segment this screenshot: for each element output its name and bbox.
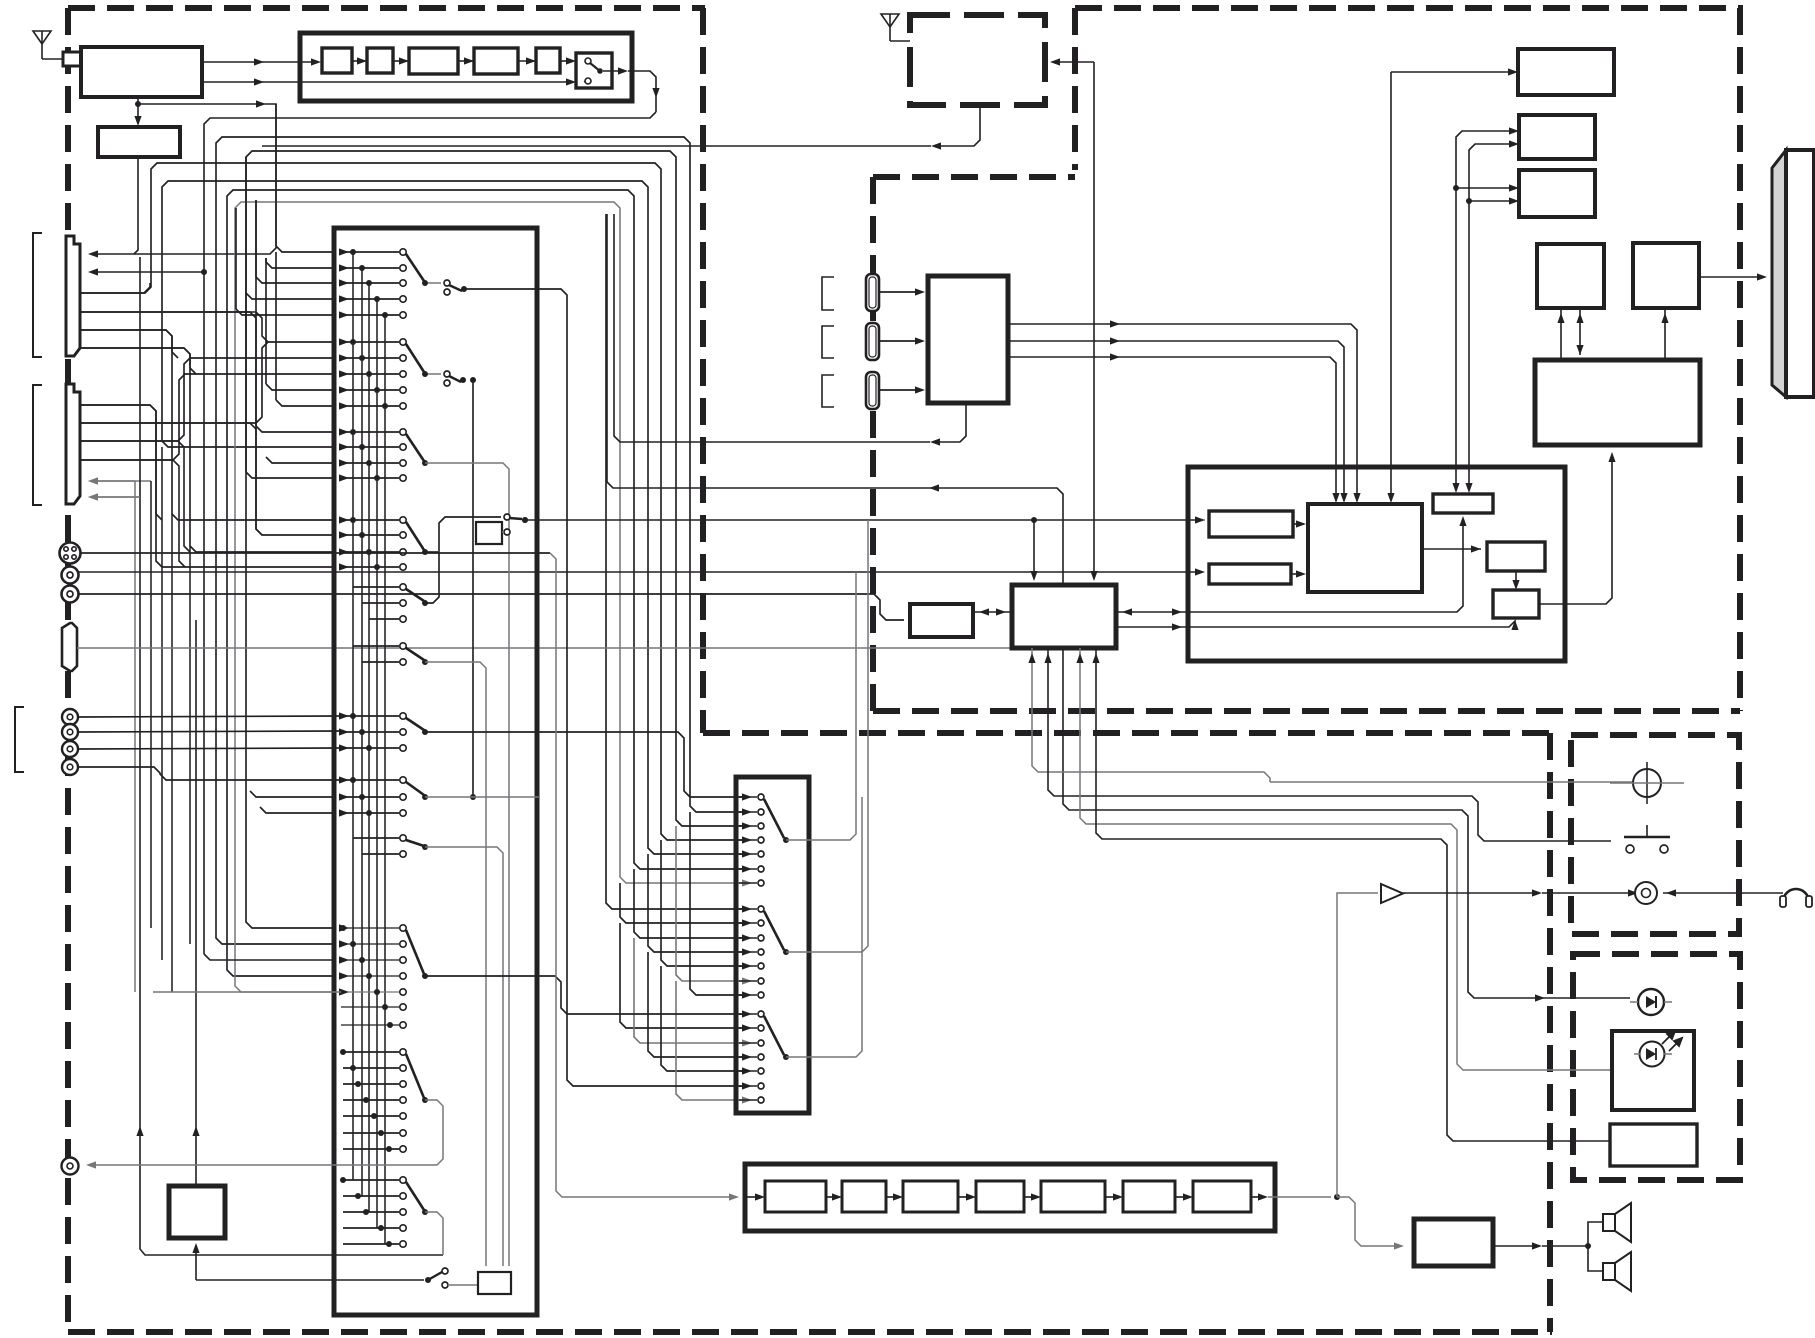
switch lever A bbox=[406, 254, 424, 281]
wire interface-motor bidirectional bbox=[973, 611, 1012, 613]
wire R2 output bbox=[786, 520, 868, 952]
switch lever D2 bbox=[406, 589, 424, 601]
wire A output bbox=[464, 289, 742, 1086]
dashed enclosure: top-right block top edge bbox=[1075, 5, 1743, 11]
headphone icon bbox=[1783, 889, 1809, 902]
switch lever D1 bbox=[406, 522, 424, 550]
wire y442 from head amp bottom bbox=[936, 403, 966, 442]
trunk vertical x266 mid bbox=[265, 262, 267, 384]
trunk vertical x135 gray bbox=[134, 481, 136, 992]
wire I output to rec RCA bbox=[92, 1100, 443, 1165]
switch group B rows bbox=[341, 341, 399, 343]
trunk vertical x162 lower bbox=[161, 447, 163, 960]
wire tuner branch right bbox=[138, 103, 270, 105]
block: tone stage 6 bbox=[1123, 1181, 1175, 1212]
mid trunk stub x634 to R3 row3 bbox=[634, 938, 742, 1043]
cassette head connector 3 bbox=[866, 372, 879, 409]
mid trunk stub x661 to R3 row5 bbox=[661, 966, 742, 1071]
bus P4 conn1-pin3 / y163 / recsel row4 bbox=[81, 163, 742, 840]
connector CN3 bbox=[62, 623, 77, 671]
speaker 2 bbox=[1603, 1263, 1615, 1280]
switch group C rows bbox=[341, 431, 399, 433]
block: chain stage 4 bbox=[474, 48, 518, 74]
IR receiver symbol bbox=[1638, 989, 1664, 1015]
switch group D2 rows bbox=[353, 586, 399, 588]
dot column verticals A-J bbox=[352, 252, 354, 1180]
wire x1469 feed bbox=[1469, 144, 1513, 488]
mid trunk vertical x606 to R2 row1 bbox=[606, 214, 742, 909]
dashed enclosure: top-right block left upper edge bbox=[1072, 8, 1078, 170]
wire CN3 gray line y648 bbox=[77, 647, 1012, 649]
wire antenna to terminal bbox=[42, 58, 63, 60]
wire RCA4 to matrix F row bbox=[78, 767, 341, 780]
switch lever B bbox=[406, 344, 424, 372]
wire FM box bottom return bbox=[937, 105, 980, 146]
bracket head 2 bbox=[822, 326, 834, 358]
connector RCA 1 bbox=[62, 709, 78, 725]
wire y635 inside syscon bbox=[1188, 621, 1515, 627]
trunk vertical x256 mid bbox=[255, 200, 257, 426]
wire B output x473 bbox=[472, 380, 474, 797]
gray row H pass bbox=[153, 991, 341, 993]
cassette head connector 1 bbox=[866, 274, 879, 311]
wire tuner out 1 bbox=[202, 61, 316, 63]
trunk vertical x151 lower bbox=[150, 481, 152, 928]
wire to speaker 1 bbox=[1588, 1222, 1603, 1246]
bus P2 y137 / H row2 / recsel row2 bbox=[216, 137, 742, 944]
block: tone stage 2 bbox=[842, 1181, 886, 1212]
wire y520 into latch1 bbox=[1199, 519, 1205, 521]
small box power block bbox=[478, 1272, 511, 1294]
connector CN1 bbox=[66, 236, 80, 356]
switch group D1 rows bbox=[341, 519, 399, 521]
wire y488 long line bbox=[607, 214, 935, 488]
block: head amplifier bbox=[928, 276, 1008, 403]
wire ANT2 to FM box bbox=[890, 40, 910, 42]
dashed enclosure: cassette block left edge bbox=[870, 177, 876, 711]
wire CN2 pin2 bbox=[81, 423, 262, 535]
wire conn1 pin4 to D row2 bbox=[81, 312, 336, 535]
trunk vertical x140 record loop bbox=[140, 257, 443, 1255]
LED emit arrows bbox=[1662, 1031, 1682, 1051]
wire CN1 pin3 bbox=[81, 283, 150, 293]
record selector group R3 bbox=[739, 1013, 757, 1015]
block: driver bbox=[1487, 542, 1545, 571]
block: system control frame bbox=[1188, 467, 1565, 661]
wire latch2 to CPU bbox=[1291, 573, 1300, 575]
block: buffer bbox=[1493, 590, 1539, 618]
wire branch to connector CN1 pin2 bbox=[92, 271, 204, 273]
dashed enclosure: main unit left block top edge bbox=[68, 5, 705, 11]
switch lever D3 bbox=[406, 648, 424, 660]
speaker 1 bbox=[1603, 1214, 1615, 1231]
connector RCA 3 bbox=[62, 741, 78, 757]
wire RCA1 to matrix bbox=[78, 716, 341, 717]
block: IF detector bbox=[98, 127, 180, 157]
wire D3 output x486 bbox=[425, 662, 486, 1266]
trunk vertical x172 lower bbox=[171, 514, 173, 992]
wire G output x503 bbox=[425, 847, 503, 1266]
block: motor driver bbox=[910, 604, 973, 637]
wire D2 output up bbox=[425, 517, 501, 603]
dashed enclosure: top-right block right edge bbox=[1737, 8, 1743, 711]
wire x1456 feed bbox=[1456, 131, 1513, 488]
switch lever E bbox=[406, 718, 424, 730]
wire driver-power bbox=[1664, 308, 1666, 360]
block: display controller bbox=[1537, 244, 1604, 308]
wire CN1 pin6 bbox=[81, 348, 196, 374]
switch group D3 rows bbox=[353, 645, 399, 647]
block: tone stage 7 bbox=[1193, 1181, 1251, 1212]
volume encoder symbol bbox=[1633, 769, 1661, 797]
block: chain stage 3 bbox=[409, 48, 458, 74]
wire x1391 display feed bbox=[1390, 72, 1392, 498]
trunk vertical x246 mid bbox=[245, 157, 247, 472]
switch group G rows bbox=[353, 837, 399, 839]
switch group A rows bbox=[341, 251, 399, 253]
wire to power amp bbox=[1337, 1197, 1398, 1246]
dashed enclosure: main unit bottom edge bbox=[68, 1329, 1552, 1335]
mid trunk stub x690 to R2 row7 bbox=[690, 812, 742, 995]
wire CN1 pin5 bbox=[81, 330, 178, 358]
dashed enclosure: cassette block bottom edge y=711 bbox=[873, 708, 1740, 714]
block: CPU bbox=[1308, 504, 1422, 592]
wire driver to lower bbox=[1515, 571, 1517, 585]
block: power supply bbox=[1535, 360, 1700, 445]
block: record selector bbox=[736, 777, 809, 1113]
bus P5 y181 / C row2 / recsel row5 bbox=[162, 181, 742, 854]
bracket RCA group bbox=[15, 707, 24, 772]
wire conn2 pin2 to B row1 bbox=[81, 342, 336, 423]
block: tone stage 5 bbox=[1041, 1181, 1105, 1212]
bus P6 y190 / H row4 / recsel row6 bbox=[227, 190, 742, 976]
wire chain lower input bbox=[300, 81, 572, 83]
wire amp to jack bbox=[1403, 892, 1536, 894]
wire F output gray bbox=[425, 796, 473, 798]
switch SW-chain bbox=[585, 58, 591, 64]
block: stereo/mono switch box bbox=[576, 53, 612, 88]
dashed box: FM antenna block bbox=[910, 15, 1045, 105]
wire CN2 pin1 bbox=[81, 405, 162, 520]
record selector group R1 bbox=[739, 796, 757, 798]
wire conn1 pin5 to D row1 bbox=[81, 330, 336, 520]
trunk vertical x196 lower bbox=[192, 1243, 199, 1253]
wire head2 to head amp bbox=[879, 340, 919, 342]
stub feeds C rows bbox=[256, 426, 336, 432]
connector RCA rec out bbox=[62, 1158, 79, 1175]
mid trunk stub x648 to R3 row4 bbox=[648, 952, 742, 1057]
wire CN1 pin4 bbox=[81, 312, 268, 342]
wire into CN2 pin5 bbox=[92, 480, 135, 482]
switch K power bbox=[425, 1277, 431, 1283]
record selector group R2 bbox=[739, 908, 757, 910]
switch lever I bbox=[406, 1054, 424, 1098]
block: reset bbox=[1433, 494, 1493, 513]
block: LED display box bbox=[1612, 1031, 1694, 1110]
antenna ANT1 bbox=[33, 31, 51, 44]
trunk vertical x190 lower bbox=[189, 546, 191, 944]
block: timer display box1 bbox=[1518, 49, 1614, 95]
wire CPU to driver bbox=[1422, 548, 1481, 550]
switch A stage2 bbox=[428, 282, 441, 284]
block: FM IF chain frame bbox=[300, 33, 632, 101]
wire CN2 pin3 bbox=[81, 441, 190, 552]
wire into CN2 pin6 bbox=[92, 496, 140, 498]
block: chain stage 5 bbox=[536, 48, 560, 73]
wire conn1 pin6 to D row3 bbox=[81, 348, 336, 552]
wire R1 output bbox=[786, 572, 856, 840]
block: tone stage 1 bbox=[765, 1181, 826, 1212]
wire tuner bottom to IF bbox=[137, 97, 139, 104]
wire controller-power A bbox=[1560, 308, 1562, 316]
wire head3 to head amp bbox=[879, 389, 919, 391]
wire y488 elbow down through interface to IR bbox=[935, 488, 1630, 998]
mid trunk stub x661 to R2 row5 bbox=[661, 840, 742, 966]
wire x140 top to CN2 pin6 bbox=[92, 496, 140, 498]
block: power amplifier bbox=[1414, 1219, 1493, 1266]
bracket head 3 bbox=[822, 375, 834, 407]
small box volume block bbox=[476, 522, 502, 544]
block: box3 bbox=[1519, 170, 1595, 217]
block: tone stage 3 bbox=[903, 1181, 958, 1212]
block: chain stage 2 bbox=[367, 48, 393, 73]
wire RCA2 to matrix bbox=[78, 731, 341, 732]
wire into CN2 pin5 bbox=[92, 480, 151, 482]
wire chain 3-4 bbox=[458, 60, 474, 62]
block: box2 bbox=[1519, 115, 1595, 159]
trunk vertical x236 mid bbox=[235, 208, 237, 309]
wire interface out B bbox=[1048, 648, 1611, 841]
switch lever G bbox=[406, 840, 424, 846]
LED symbol bbox=[1640, 1042, 1665, 1067]
switch group F rows bbox=[341, 779, 399, 781]
wire headphone to jack bbox=[1663, 892, 1783, 894]
block: tone stage 4 bbox=[976, 1181, 1024, 1212]
dashed enclosure: cassette block step edge y=177 bbox=[873, 174, 1075, 180]
wire tone chain output bbox=[1251, 1196, 1262, 1198]
wire interface out A bbox=[1032, 648, 1270, 782]
switch lever H bbox=[406, 930, 424, 974]
wire DIN to EQ trunk bbox=[81, 552, 550, 554]
wire head1 to head amp bbox=[879, 291, 919, 293]
wire CN2 pin4 bbox=[81, 460, 185, 567]
wire J output to transformer loop bbox=[425, 1212, 443, 1255]
wire interface out E bbox=[1096, 648, 1610, 1141]
switch group E rows bbox=[341, 715, 399, 717]
wire head amp out 2 bbox=[1008, 341, 1344, 498]
mid trunk stub x648 to R2 row4 bbox=[648, 854, 742, 952]
wire head amp out 1 bbox=[1008, 324, 1357, 498]
switch lever C bbox=[406, 434, 424, 461]
wire interface-syscon bidirectional y612 bbox=[1116, 611, 1188, 613]
wire controller-power B bbox=[1579, 308, 1581, 355]
wire y621 inside syscon bbox=[1188, 521, 1463, 612]
wire chain 4-5 bbox=[518, 60, 536, 62]
wire chain 1-2 bbox=[352, 60, 367, 62]
wire C output x509 bbox=[425, 463, 509, 1266]
dashed enclosure: mid horizontal edge y=733 bbox=[703, 730, 1552, 736]
mid trunk stub x634 to R2 row3 bbox=[634, 869, 742, 938]
wire IF bottom down bbox=[134, 157, 138, 254]
wire conn2 pin3 to B row2 bbox=[81, 358, 336, 441]
block: FM front end (tuner) bbox=[81, 47, 202, 97]
switch group I rows bbox=[343, 1051, 399, 1053]
cassette head connector 2 bbox=[866, 323, 879, 360]
connector DIN jack bbox=[60, 543, 81, 564]
wire head amp out 3 bbox=[1008, 357, 1336, 498]
bracket CN2 bbox=[33, 385, 42, 505]
wire to speaker 2 bbox=[1588, 1246, 1603, 1271]
wire into tone chain bbox=[745, 1196, 759, 1198]
switch lever F bbox=[406, 782, 424, 795]
block: indicator rect bbox=[1610, 1124, 1697, 1166]
block: power transformer bbox=[169, 1186, 225, 1238]
wire vertical x1094 to cassette interface bbox=[1093, 62, 1095, 576]
wire y520 volume line bbox=[522, 517, 528, 523]
dashed enclosure: left block right edge bbox=[700, 8, 706, 733]
wire encoder line y782 bbox=[1270, 781, 1633, 783]
wire R3 output bbox=[786, 797, 862, 1057]
headphone jack bbox=[1635, 882, 1657, 904]
block: latch 1 bbox=[1209, 511, 1293, 537]
wire chain 5-sw bbox=[560, 60, 572, 62]
wire terminal to tuner bbox=[81, 58, 83, 60]
block: mechanism interface bbox=[1012, 585, 1116, 648]
wire conn2 pin4 to B row3 bbox=[81, 374, 336, 460]
wire RCA-B to motor block bbox=[79, 594, 904, 620]
wire to headphone amp vertical bbox=[1336, 899, 1338, 1197]
wire E output to record selector row1 bbox=[425, 732, 742, 797]
dashed box: front keys block bbox=[1571, 735, 1739, 934]
wire interface-syscon y627 bbox=[1116, 626, 1188, 628]
wire driver to display bbox=[1699, 276, 1761, 278]
stub feeds A rows bbox=[276, 246, 336, 252]
mid trunk stub x676 to R3 row7 bbox=[676, 981, 742, 1100]
display: fluorescent tube bbox=[1772, 150, 1786, 397]
switch group H rows bbox=[341, 927, 399, 929]
wire into FM box right bbox=[1056, 61, 1094, 63]
wire chain output bbox=[603, 70, 620, 72]
wire y574 tape line bbox=[79, 571, 1199, 573]
block: input selector switch matrix bbox=[334, 228, 537, 1315]
trunk vertical x276 mid bbox=[275, 104, 277, 246]
mid trunk stub x620 to R3 row2 bbox=[620, 923, 742, 1028]
wire chain return to trunk bbox=[204, 112, 656, 272]
antenna ANT2 bbox=[881, 14, 899, 27]
connector RCA 2 bbox=[62, 724, 78, 740]
switch B stage2 bbox=[428, 373, 441, 375]
bus P7 y202 / H row5 / recsel row7 gray bbox=[235, 202, 742, 992]
connector RCA 4 bbox=[62, 759, 78, 775]
wire buffer out to power bbox=[1539, 457, 1612, 604]
headphone amp triangle bbox=[1381, 884, 1403, 903]
wire conn2 pin1 to D row4 bbox=[81, 405, 336, 567]
wire power amp out bbox=[1493, 1245, 1536, 1247]
trunk x204 chain return to H row3 bbox=[203, 272, 205, 954]
switch SW-vol bbox=[504, 514, 510, 520]
block: chain stage 1 bbox=[322, 48, 352, 73]
connector CN2 bbox=[66, 384, 80, 504]
wires between tone stages bbox=[826, 1196, 836, 1198]
dashed enclosure: lower right edge x=1550 bbox=[1547, 733, 1553, 1332]
block: latch 2 bbox=[1209, 564, 1291, 584]
wire H output bbox=[425, 976, 742, 1014]
antenna terminal bbox=[63, 52, 81, 66]
wire chain 2-3 bbox=[393, 60, 409, 62]
bracket CN1 bbox=[33, 233, 42, 357]
stub feeds F rows bbox=[250, 791, 336, 797]
wire latch1 to CPU bbox=[1293, 523, 1300, 525]
mid trunk stub x620 to R2 row2 bbox=[620, 883, 742, 923]
wire x1034 into interface box bbox=[1033, 520, 1035, 576]
bus P3 y151 / H row1 / recsel row3 bbox=[246, 151, 742, 928]
trunk vertical x196 transformer feed bbox=[195, 620, 197, 1186]
connector RCA jack A bbox=[62, 567, 79, 584]
dashed enclosure: main unit left edge bbox=[65, 8, 71, 1332]
wire transformer switch feed bbox=[196, 1279, 424, 1281]
wire to display driver box1 bbox=[1391, 71, 1512, 73]
wire interface out D bbox=[1080, 648, 1612, 1070]
wire tuner out 2 bbox=[202, 81, 300, 83]
block: tone control chain frame bbox=[745, 1164, 1275, 1231]
switch group J rows bbox=[343, 1179, 399, 1181]
connector RCA jack B bbox=[62, 586, 79, 603]
switch lever J bbox=[406, 1182, 424, 1210]
stub feeds B rows 4-5 bbox=[266, 384, 336, 390]
block: display driver bbox=[1633, 243, 1699, 308]
wire RCA3 to matrix bbox=[78, 748, 341, 749]
push switch symbol bbox=[1646, 825, 1648, 837]
mid trunk stub x676 to R2 row6 bbox=[676, 826, 742, 981]
dashed box: indicator block bbox=[1573, 954, 1740, 1180]
bracket head 1 bbox=[822, 277, 834, 310]
